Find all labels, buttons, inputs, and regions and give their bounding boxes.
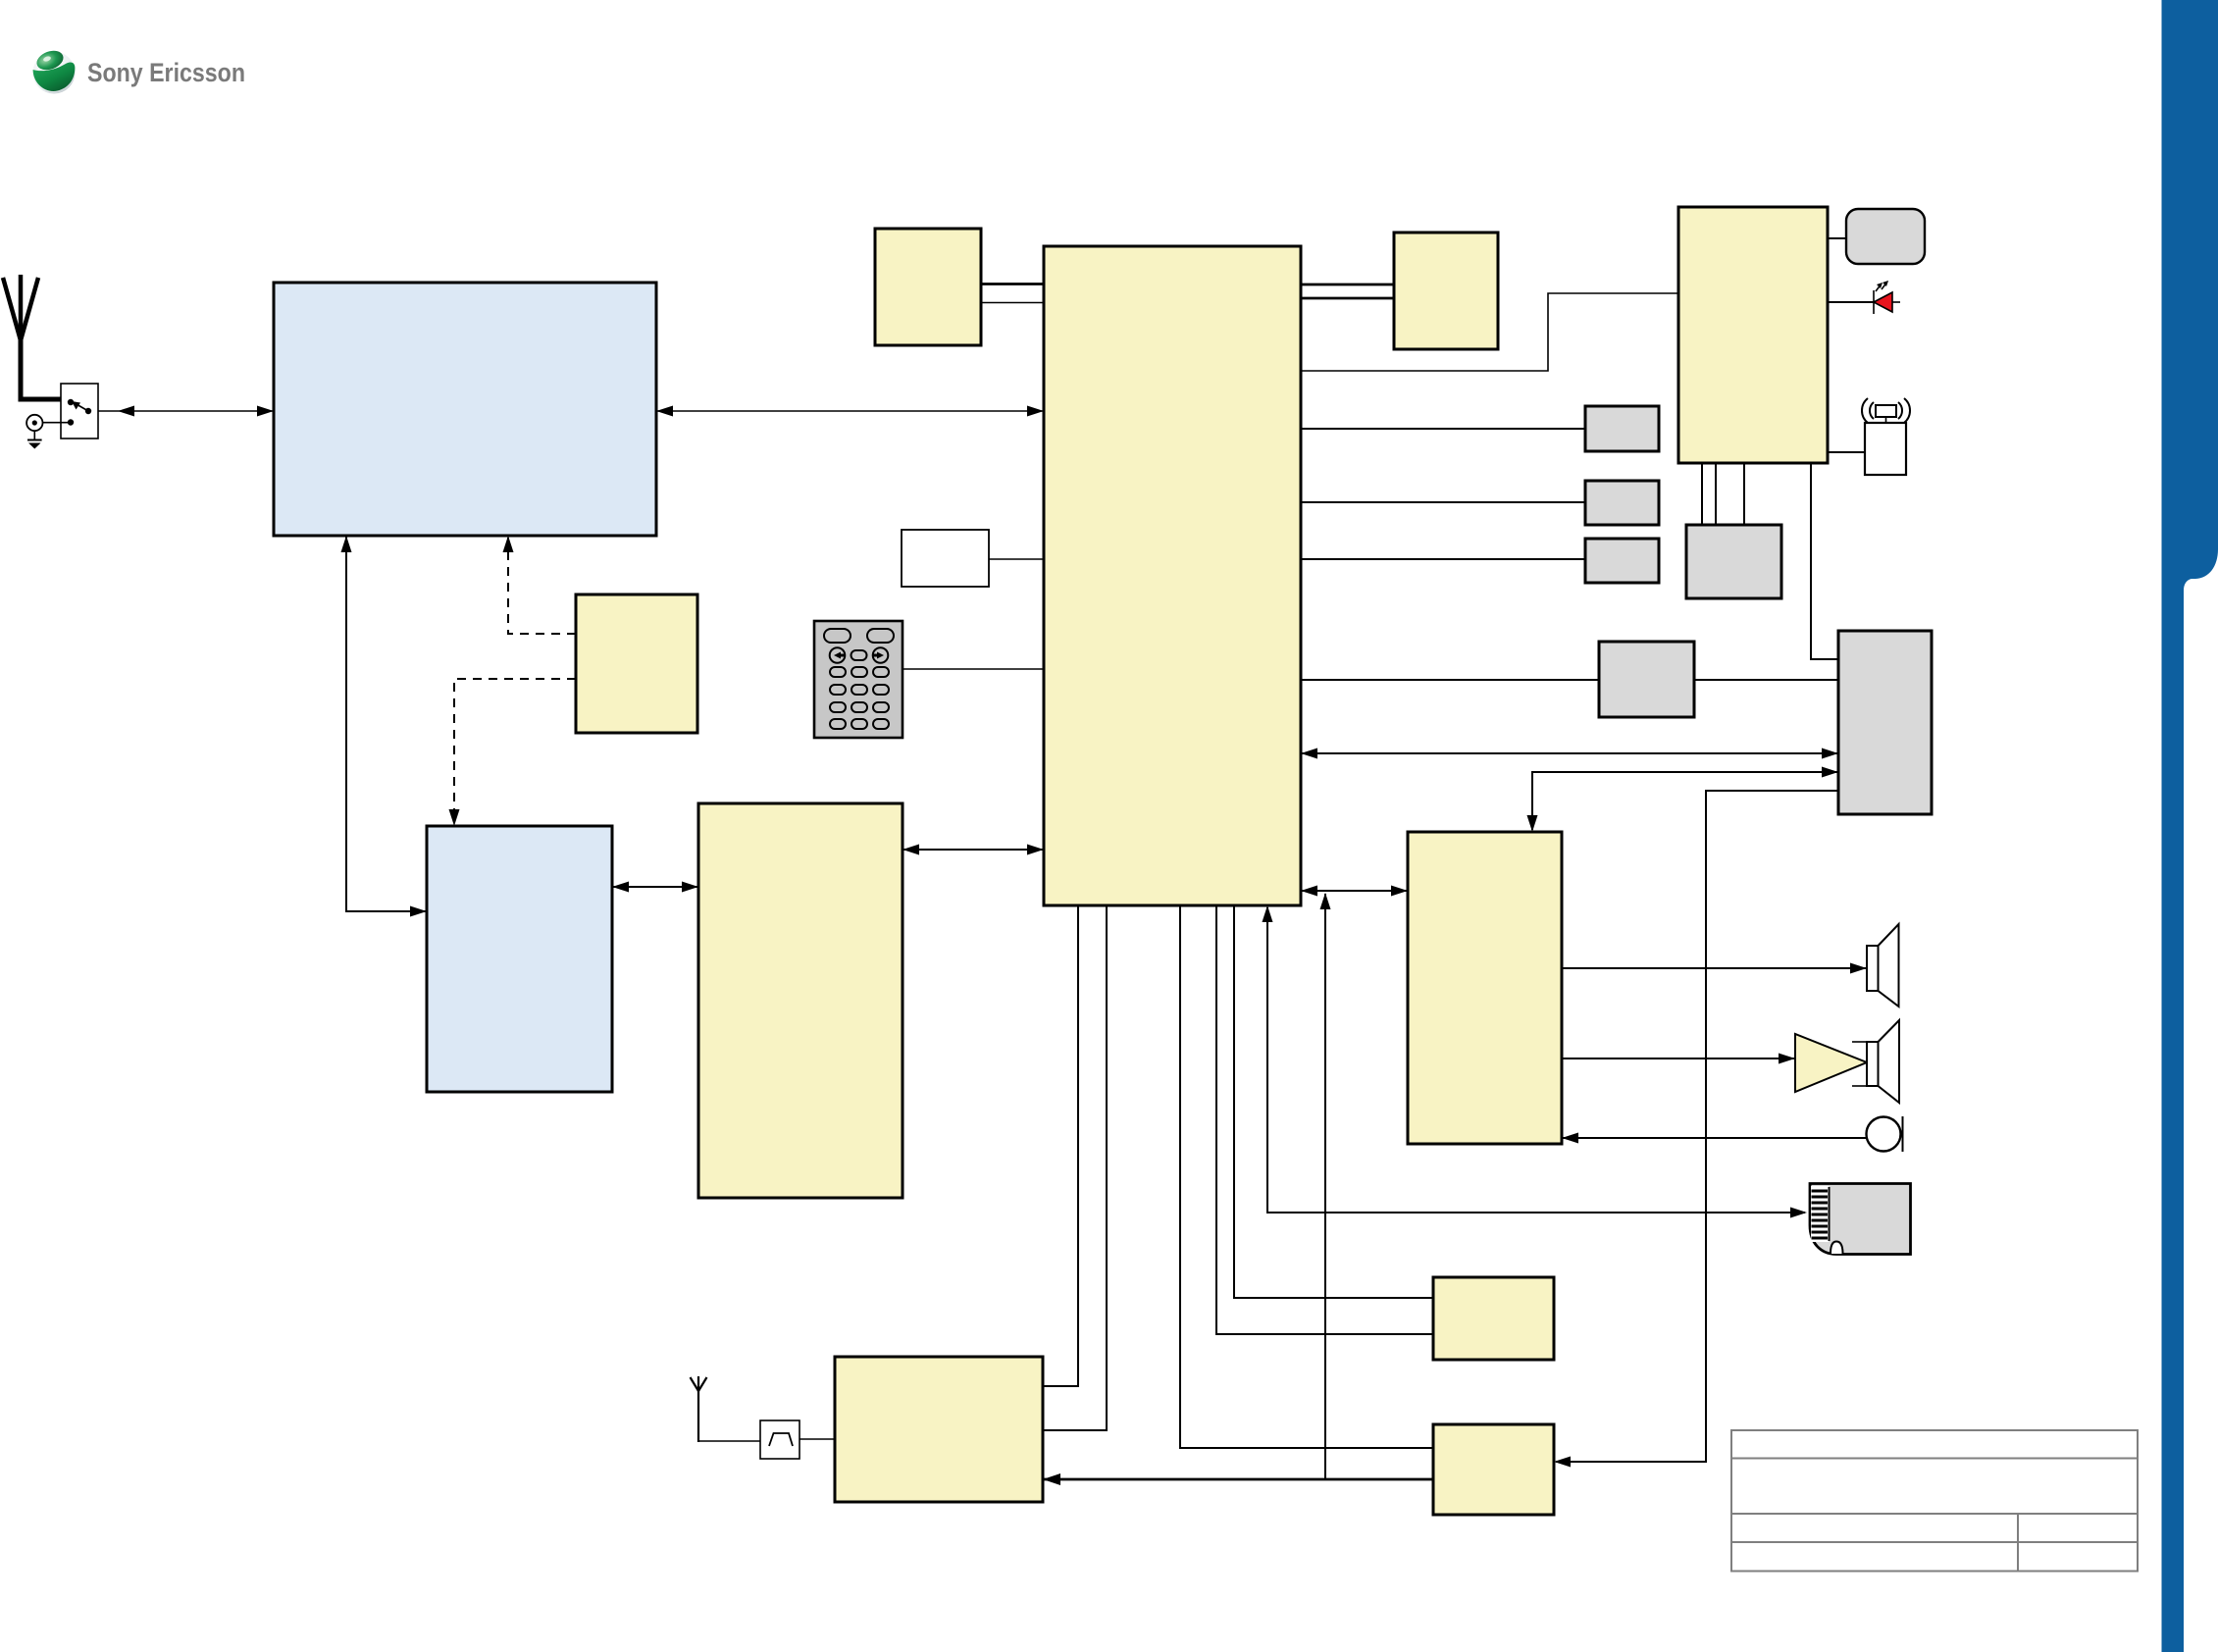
wire: baseband to SIM block (bus 2) xyxy=(1234,905,1433,1298)
NAND flash block (top right) xyxy=(1394,232,1498,349)
wire: baseband to SIM block (bus 1) xyxy=(1216,905,1433,1334)
wire: flash memory to baseband (bidirectional) xyxy=(903,845,1044,855)
wire: RF block to RF memory (L path, arrows both ends) xyxy=(341,536,428,917)
wire: keypad to baseband xyxy=(903,668,1044,670)
wire: SIM holder to baseband xyxy=(989,558,1044,560)
wire: dashed VCXO to RF block xyxy=(503,536,577,634)
wire: audio to earpiece speaker xyxy=(1562,963,1867,974)
wire: baseband to memory stick xyxy=(1263,905,1808,1218)
wire: baseband to camera module xyxy=(1301,558,1585,560)
wire: power management to battery xyxy=(1828,237,1846,239)
SDRAM block (top left) xyxy=(875,229,981,345)
vibrator motor xyxy=(1862,398,1910,475)
wire: dashed VCXO to RF memory xyxy=(449,679,577,826)
wire: antenna switch to RF block (bidirectional) xyxy=(98,406,274,417)
baseband processor block U2 xyxy=(1044,246,1301,905)
regulator grey block xyxy=(1686,525,1781,598)
wire: charging block to bluetooth xyxy=(1043,1473,1433,1485)
antenna switch / test connector box xyxy=(61,384,98,439)
bluetooth antenna ANT2 xyxy=(691,1376,707,1442)
camera grey module xyxy=(1585,539,1659,583)
wire: baseband to IrDA module xyxy=(1301,428,1585,430)
earpiece speaker SP1 xyxy=(1867,924,1899,1007)
wire: RF memory to flash memory (bidirectional) xyxy=(612,882,698,893)
audio amplifier xyxy=(1795,1034,1867,1092)
wire: microphone to audio xyxy=(1562,1133,1867,1144)
BT band filter xyxy=(760,1420,800,1459)
charging block xyxy=(1433,1424,1554,1515)
VCXO crystal block X1 xyxy=(576,594,697,733)
svg-text:Sony Ericsson: Sony Ericsson xyxy=(87,58,245,87)
UART level shifter grey block xyxy=(1599,642,1694,717)
wire: baseband to charging block xyxy=(1180,905,1433,1448)
main antenna ANT1 xyxy=(3,275,61,399)
FM radio grey module xyxy=(1585,481,1659,525)
wire: baseband to FM radio module xyxy=(1301,501,1585,503)
wire: BT antenna to filter to bluetooth xyxy=(698,1439,835,1441)
wire: baseband to bluetooth (bus 1) xyxy=(1043,905,1078,1386)
power management block U3 xyxy=(1678,207,1828,463)
wire: baseband to bluetooth (bus 2) xyxy=(1043,905,1107,1430)
wire: audio to amplifier xyxy=(1562,1054,1795,1064)
memory stick icon xyxy=(1810,1184,1911,1255)
microphone MIC1 xyxy=(1867,1116,1903,1152)
LED D1 (red) xyxy=(1874,281,1900,314)
wire: baseband to audio block (bidirectional) with branch from charging line xyxy=(1301,886,1408,1480)
sidebar blue tab xyxy=(2162,0,2218,1652)
wire: baseband to system connector (bidirectional) xyxy=(1301,749,1838,759)
title block table xyxy=(1731,1430,2138,1572)
keypad icon xyxy=(814,621,903,738)
flash memory block xyxy=(698,803,903,1198)
SIM holder box xyxy=(902,530,989,587)
SIM interface block xyxy=(1433,1277,1554,1360)
wire: power management to vibrator xyxy=(1828,451,1865,453)
wire: power to regulator block (three verticals) xyxy=(1702,463,1744,525)
IrDA grey module xyxy=(1585,406,1659,451)
wire: power management to accessory detect (vertical) xyxy=(1811,463,1838,659)
wire: memory bus left (two lines) xyxy=(981,284,1044,303)
RF test port (coax) xyxy=(26,415,68,431)
battery pack xyxy=(1846,209,1925,264)
wire: baseband through UART block to system connector xyxy=(1301,679,1838,681)
system connector grey block xyxy=(1838,631,1932,814)
wire: system connector to audio block top xyxy=(1527,767,1839,833)
wire: system connector to charging block xyxy=(1554,791,1838,1468)
bluetooth module U5 xyxy=(835,1357,1043,1502)
RF transceiver block U1 xyxy=(274,283,656,536)
wire: RF block to baseband (bidirectional) xyxy=(656,406,1044,417)
wire: memory bus right (two lines) xyxy=(1301,284,1394,298)
Sony Ericsson logo xyxy=(33,47,246,93)
ground symbol xyxy=(27,431,42,448)
loudspeaker SP2 xyxy=(1867,1020,1899,1103)
wire: power management to LED xyxy=(1828,301,1874,303)
RF memory block xyxy=(427,826,612,1092)
wire: baseband to power management (jog) xyxy=(1301,293,1678,371)
audio block U4 xyxy=(1408,832,1562,1144)
